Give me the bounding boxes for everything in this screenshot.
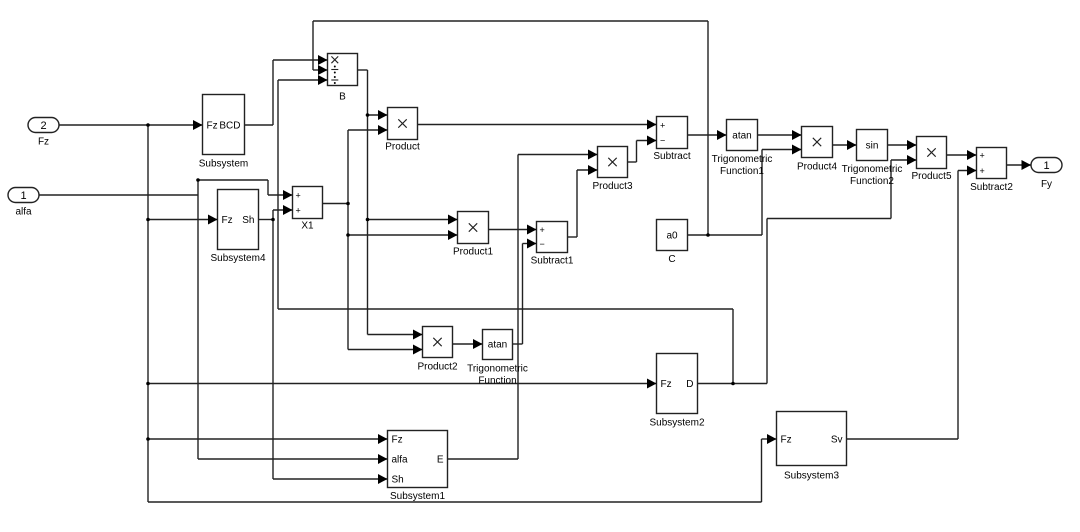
svg-text:Subsystem2: Subsystem2 — [649, 418, 704, 429]
svg-text:Product3: Product3 — [592, 181, 632, 192]
svg-text:Product2: Product2 — [417, 362, 457, 373]
svg-text:C: C — [668, 254, 675, 265]
svg-text:B: B — [339, 92, 346, 103]
svg-text:+: + — [660, 121, 665, 131]
svg-text:+: + — [296, 191, 301, 201]
svg-text:Trigonometric: Trigonometric — [842, 164, 903, 175]
svg-text:1: 1 — [1043, 160, 1049, 172]
svg-text:Subtract2: Subtract2 — [970, 182, 1013, 193]
svg-text:−: − — [540, 239, 545, 249]
svg-text:E: E — [437, 455, 444, 466]
svg-text:2: 2 — [40, 120, 46, 132]
svg-text:Function1: Function1 — [720, 166, 764, 177]
svg-text:Function: Function — [478, 376, 516, 387]
svg-text:D: D — [686, 379, 693, 390]
svg-text:atan: atan — [488, 340, 507, 351]
svg-text:a0: a0 — [666, 231, 678, 242]
svg-text:Sh: Sh — [242, 215, 254, 226]
svg-text:Fz: Fz — [38, 137, 49, 148]
svg-text:+: + — [296, 206, 301, 216]
svg-text:1: 1 — [20, 190, 26, 202]
svg-text:Fz: Fz — [781, 435, 792, 446]
svg-text:Fz: Fz — [222, 215, 233, 226]
svg-text:+: + — [980, 151, 985, 161]
svg-text:Trigonometric: Trigonometric — [712, 154, 773, 165]
svg-text:BCD: BCD — [219, 121, 240, 132]
svg-text:X1: X1 — [301, 221, 314, 232]
svg-text:Product4: Product4 — [797, 162, 837, 173]
svg-text:Fz: Fz — [392, 435, 403, 446]
svg-text:+: + — [980, 166, 985, 176]
svg-text:Fz: Fz — [661, 379, 672, 390]
svg-text:alfa: alfa — [15, 207, 32, 218]
svg-text:Subsystem: Subsystem — [199, 159, 248, 170]
svg-text:Sv: Sv — [831, 435, 843, 446]
svg-text:−: − — [660, 136, 665, 146]
svg-text:alfa: alfa — [392, 455, 409, 466]
svg-text:Subsystem1: Subsystem1 — [390, 491, 445, 502]
svg-text:Subsystem3: Subsystem3 — [784, 471, 839, 482]
svg-text:Product: Product — [385, 142, 420, 153]
svg-text:+: + — [540, 225, 545, 235]
svg-text:sin: sin — [866, 141, 879, 152]
svg-text:Product5: Product5 — [911, 171, 951, 182]
svg-text:Trigonometric: Trigonometric — [467, 364, 528, 375]
svg-text:Product1: Product1 — [453, 247, 493, 258]
svg-text:Subtract1: Subtract1 — [531, 256, 574, 267]
svg-text:Subtract: Subtract — [653, 151, 690, 162]
svg-text:Sh: Sh — [392, 475, 404, 486]
svg-text:atan: atan — [732, 131, 751, 142]
svg-text:Fz: Fz — [207, 121, 218, 132]
svg-text:Subsystem4: Subsystem4 — [210, 253, 265, 264]
svg-text:Fy: Fy — [1041, 179, 1052, 190]
svg-text:Function2: Function2 — [850, 176, 894, 187]
